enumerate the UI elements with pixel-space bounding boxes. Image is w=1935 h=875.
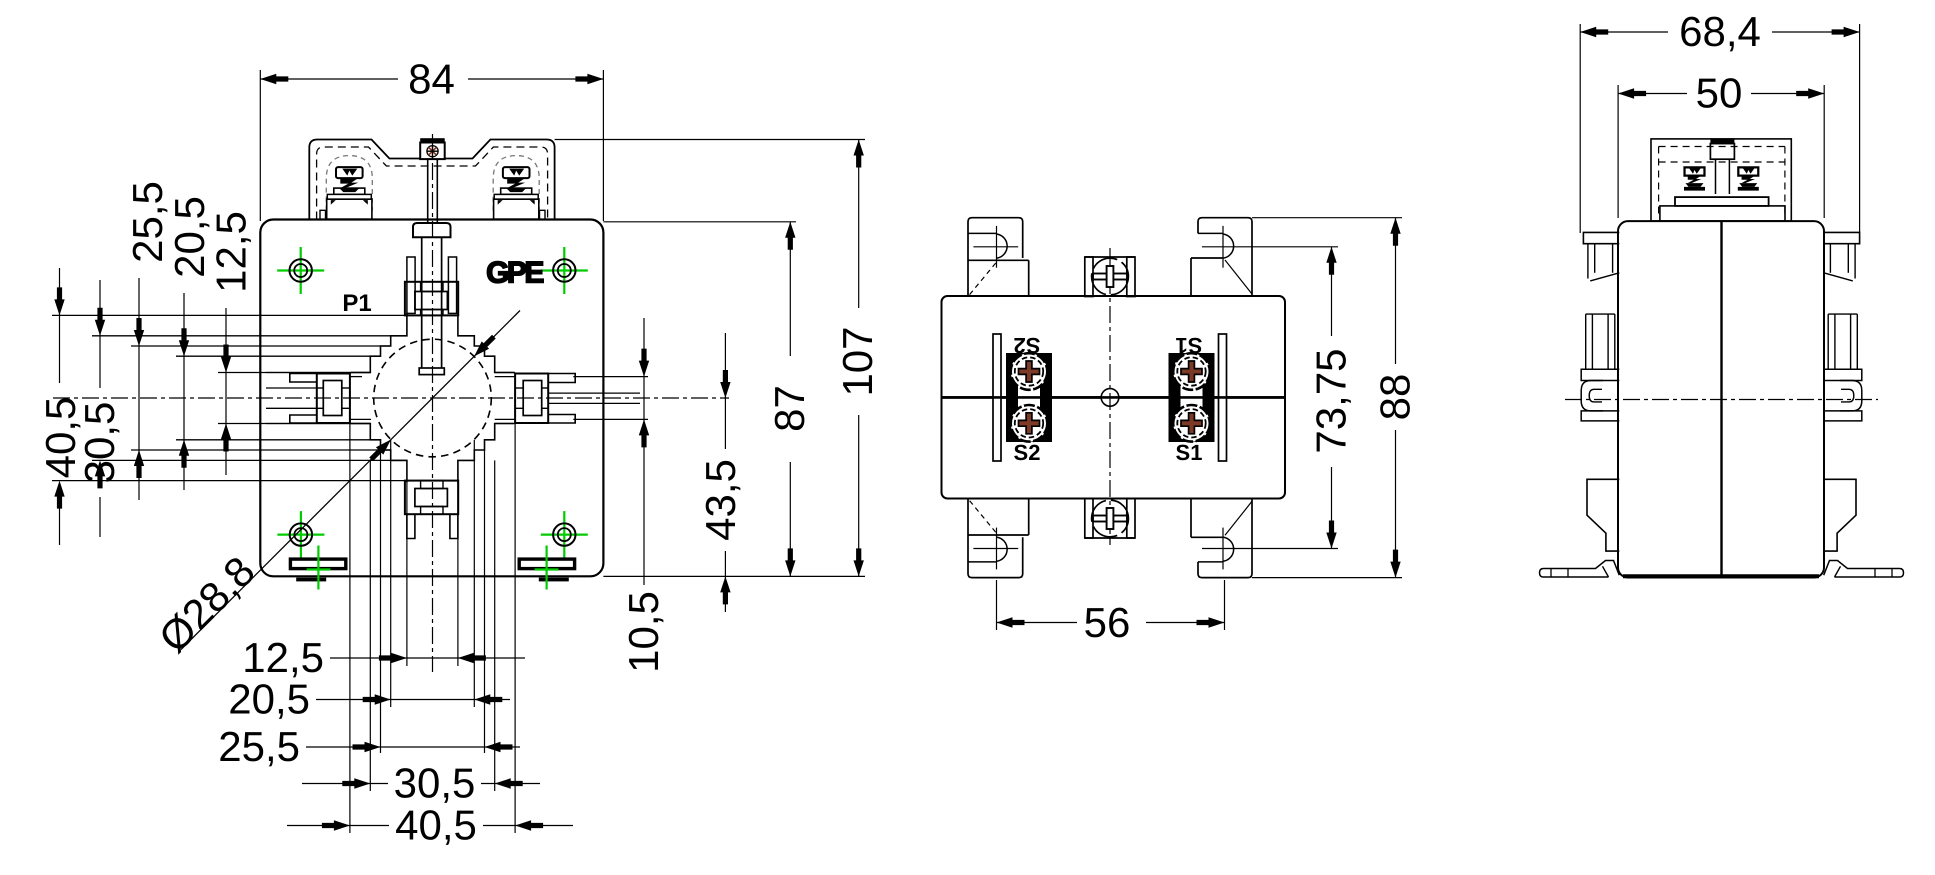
bottom clamp notch top: [421, 481, 443, 489]
left ext lines lower: [52, 424, 407, 481]
bottom dim 40.5 arrows: [322, 820, 543, 830]
dim 84 text: [408, 56, 455, 103]
right terminal base: [1660, 206, 1785, 221]
din bar right lower: [539, 578, 569, 582]
cover screw right: [493, 156, 539, 220]
mounting hole bottom-left: [277, 511, 324, 558]
bracket top-left: [968, 218, 1029, 296]
dim 107 text: [834, 326, 881, 396]
left dim 20.5 line: [183, 293, 185, 490]
terminal screws S2: [1011, 353, 1048, 441]
left arm notch lines: [266, 388, 317, 408]
dim 56 line: [997, 622, 1225, 624]
dim 56 arrows: [997, 617, 1225, 627]
svg-text:S2: S2: [1014, 333, 1041, 358]
column flank strip right: [448, 257, 456, 313]
bottom dim 40.5 line: [287, 825, 573, 827]
svg-text:30,5: 30,5: [394, 760, 476, 807]
bottom dim 12.5 arrows: [379, 653, 486, 663]
left dim 40.5 arrows: [54, 287, 64, 508]
left clamp shelf top: [290, 374, 317, 383]
left clamp outer: [317, 374, 350, 424]
label S1 bottom: [1176, 440, 1203, 465]
svg-text:30,5: 30,5: [76, 402, 123, 484]
column clamp outer: [405, 282, 458, 316]
left dim 30.5 text: [76, 402, 123, 484]
dim 56 ext lines: [997, 580, 1225, 630]
left dim 12.5 arrows: [221, 345, 231, 452]
svg-text:87: 87: [766, 385, 813, 432]
middle parting line: [942, 396, 1286, 399]
bore diameter label: [150, 547, 264, 661]
left clamp shelf bottom: [290, 415, 317, 423]
right cover dashed: [1659, 147, 1785, 219]
horizontal centerline: [53, 397, 729, 399]
bottom ext lines left: [350, 424, 407, 834]
left clamp notch top: [317, 388, 324, 408]
svg-text:56: 56: [1084, 599, 1131, 646]
mounting hole bottom-right: [541, 511, 588, 558]
bottom dim 30.5 arrows: [342, 778, 522, 788]
left dim 20.5 text: [166, 196, 213, 278]
bottom dim 25.5 line: [306, 746, 520, 748]
svg-text:12,5: 12,5: [208, 211, 255, 293]
right clip right-side: [1824, 232, 1904, 577]
bottom dim 25.5 arrows: [353, 742, 513, 752]
bottom dim 20.5 line: [316, 699, 510, 701]
bore leader line: [181, 311, 520, 650]
svg-text:25,5: 25,5: [218, 723, 300, 770]
dim 43.5 text: [697, 459, 744, 541]
central screw head square: [420, 143, 445, 160]
svg-text:107: 107: [834, 326, 881, 396]
column clamp notch bottom: [421, 310, 443, 316]
bracket bottom-right hook line: [1202, 548, 1338, 550]
dim 43.5 line: [724, 333, 726, 612]
bottom dim 30.5 text: [394, 760, 476, 807]
svg-text:43,5: 43,5: [697, 459, 744, 541]
left dim 40.5 text: [37, 397, 84, 479]
green cross right: [535, 546, 559, 590]
terminal bar left: [993, 334, 1001, 461]
dim 50 text: [1696, 70, 1743, 117]
primary screw shank: [428, 159, 438, 223]
dim 84 arrows: [260, 74, 603, 84]
cross staircase lower-left: [351, 424, 407, 483]
column flank strip left: [407, 257, 415, 313]
terminal bar right: [1219, 334, 1227, 461]
din bar left lower: [296, 578, 326, 582]
bottom dim 30.5 line: [302, 783, 540, 785]
dim 73.75 line: [1331, 247, 1333, 549]
bottom ext lines right: [458, 424, 515, 834]
bottom dim 25.5 text: [218, 723, 300, 770]
bottom clamp left leg: [407, 514, 415, 538]
central screw cap: [420, 138, 445, 143]
dim 87 arrows: [785, 222, 795, 577]
dim 107 arrows: [854, 140, 864, 577]
dim 88 arrows: [1390, 218, 1400, 578]
svg-text:S1: S1: [1176, 440, 1203, 465]
mounting hole top-right: [541, 247, 588, 294]
column stem: [422, 237, 442, 368]
left arm slot edges: [266, 373, 370, 424]
svg-text:50: 50: [1696, 70, 1743, 117]
mounting hole top-left: [277, 247, 324, 294]
svg-text:P1: P1: [342, 290, 371, 317]
svg-text:10,5: 10,5: [620, 591, 667, 673]
right cap screw: [1710, 138, 1734, 194]
bottom dim 20.5 arrows: [363, 694, 503, 704]
bottom dim 12.5 text: [242, 634, 324, 681]
cross staircase lower-right: [458, 424, 514, 483]
bracket bottom-left: [968, 499, 1029, 577]
dim 73.75 arrows: [1326, 247, 1336, 549]
right parting line: [1720, 221, 1722, 577]
right arm inner lines: [548, 393, 640, 403]
front view body outline: [260, 220, 603, 577]
dim 107 bottom extension: [603, 575, 865, 577]
right screw left: [1684, 167, 1705, 190]
middle centre pivot circle: [1101, 389, 1119, 407]
terminal screws S1: [1173, 353, 1210, 441]
svg-text:S1: S1: [1176, 333, 1203, 358]
dim 73.75 text: [1308, 348, 1355, 453]
dim 84 extension lines: [260, 70, 603, 221]
right clamp notch left: [515, 388, 523, 408]
left ext lines upper: [52, 315, 407, 372]
right clamp inner: [523, 381, 542, 416]
right horizontal centerline: [1565, 399, 1878, 401]
bottom clamp outer: [405, 481, 458, 515]
middle bottom screw: [1085, 499, 1135, 539]
bottom dim 12.5 line: [330, 657, 525, 659]
svg-text:25,5: 25,5: [124, 181, 171, 263]
cover bottom step right: [540, 210, 546, 219]
dim 68.4 arrows: [1580, 27, 1859, 37]
dim 84 line: [260, 78, 603, 80]
bore leader arrow lower: [367, 436, 394, 463]
column clamp inner: [415, 292, 448, 310]
label S2 top: [1014, 333, 1041, 358]
dim 43.5 arrows: [720, 370, 730, 604]
right cover outline: [1651, 139, 1791, 221]
bottom clamp right leg: [450, 514, 458, 538]
right clip left-side: [1540, 232, 1620, 577]
dim 88 ext lines: [1252, 218, 1402, 578]
left dim 30.5 line: [99, 280, 101, 537]
bore dashed circle: [374, 339, 492, 457]
cover screw left: [326, 156, 372, 220]
left dim 12.5 line: [225, 308, 227, 475]
right clamp shelf bottom: [548, 415, 575, 424]
svg-text:12,5: 12,5: [242, 634, 324, 681]
right arm lip extension: [573, 377, 648, 420]
dim 87 top extension: [603, 221, 796, 223]
svg-text:73,75: 73,75: [1308, 348, 1355, 453]
svg-text:40,5: 40,5: [395, 802, 477, 849]
terminal block S2 body: [1006, 353, 1052, 442]
bottom dim 20.5 text: [228, 676, 310, 723]
left dim 20.5 arrows: [179, 328, 189, 468]
dim 107 line: [858, 140, 860, 577]
middle top screw: [1085, 257, 1135, 297]
left arm inner lip: [350, 377, 371, 420]
dim 50 ext lines: [1618, 85, 1824, 218]
right clamp shelf top: [548, 374, 575, 383]
dim 107 top extension: [555, 139, 865, 141]
dim 68.4 text: [1679, 8, 1761, 55]
cross staircase upper-right: [458, 313, 514, 372]
din bar right: [519, 559, 574, 569]
svg-text:20,5: 20,5: [228, 676, 310, 723]
cover bottom step left: [320, 210, 326, 219]
dim 88 line: [1395, 218, 1397, 578]
right screw right: [1738, 167, 1759, 190]
din bar left: [290, 559, 345, 569]
bottom clamp inner: [415, 489, 448, 507]
column T-cap: [413, 223, 451, 237]
svg-text:GPE: GPE: [486, 257, 543, 290]
left dim 25.5 line: [138, 278, 140, 500]
right view bottom thick edge: [1623, 574, 1819, 578]
bracket top-right hook line: [1202, 246, 1338, 248]
dim 50 line: [1618, 93, 1824, 95]
dim 10.5 text: [620, 591, 667, 673]
vertical centerline: [432, 134, 434, 672]
left dim 40.5 line: [59, 268, 61, 545]
bore leader arrow upper: [470, 333, 497, 360]
right arm inner lip: [495, 377, 515, 420]
dim 68.4 ext lines: [1580, 24, 1859, 233]
left dim 12.5 text: [208, 211, 255, 293]
right screw base bar: [1675, 197, 1769, 206]
middle vertical centerline: [1109, 248, 1111, 545]
left clamp inner: [323, 381, 342, 416]
bottom dim 40.5 text: [395, 802, 477, 849]
column clamp notch top: [421, 282, 443, 292]
dim 50 arrows: [1618, 88, 1824, 98]
dim 87 line: [789, 222, 791, 577]
dim 10.5 arrows: [639, 349, 649, 448]
dim 10.5 line: [643, 318, 645, 585]
right clamp notch right: [542, 388, 549, 408]
dim 87 text: [766, 385, 813, 432]
dim 68.4 line: [1580, 31, 1859, 33]
right arm slot edges: [495, 373, 515, 424]
central screw head detail: [427, 145, 439, 157]
dim 88 text: [1372, 374, 1419, 421]
cross staircase upper-left: [351, 313, 407, 372]
terminal cover outline: [309, 140, 554, 220]
middle parting line over blocks: [942, 396, 1286, 399]
dim 56 text: [1084, 599, 1131, 646]
GPE logo: [486, 257, 543, 290]
bracket top-right: [1191, 218, 1252, 296]
left dim 25.5 text: [124, 181, 171, 263]
label S2 bottom: [1014, 440, 1041, 465]
middle view body: [942, 296, 1286, 499]
column stem foot: [419, 368, 444, 375]
svg-text:20,5: 20,5: [166, 196, 213, 278]
label S1 top: [1176, 333, 1203, 358]
terminal block S1 body: [1169, 353, 1215, 442]
bottom clamp notch bottom: [421, 507, 443, 515]
svg-text:68,4: 68,4: [1679, 8, 1761, 55]
terminal cover inner dashed line: [317, 147, 548, 220]
left dim 30.5 arrows: [95, 308, 105, 489]
right view body: [1618, 221, 1824, 577]
green cross left: [307, 546, 331, 590]
P1 label: [342, 290, 371, 317]
svg-text:84: 84: [408, 56, 455, 103]
svg-text:S2: S2: [1014, 440, 1041, 465]
left clamp notch bottom: [342, 388, 350, 408]
right clamp outer: [515, 374, 548, 424]
bracket bottom-right: [1191, 499, 1252, 577]
left dim 25.5 arrows: [134, 318, 144, 478]
svg-text:88: 88: [1372, 374, 1419, 421]
